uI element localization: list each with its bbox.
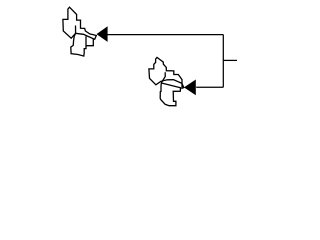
wire right vertical bbox=[222, 35, 224, 88]
node A lower jagged lobe bbox=[71, 26, 94, 57]
arrowhead 2 bbox=[184, 80, 196, 96]
arrowhead 1 bbox=[97, 26, 108, 42]
node A upper jagged lobe bbox=[63, 7, 96, 39]
wire bottom horizontal bbox=[196, 86, 223, 88]
wire top horizontal bbox=[107, 34, 223, 36]
wire stub right bbox=[223, 59, 237, 61]
node B lower jagged lobe bbox=[160, 72, 180, 105]
node B upper jagged lobe bbox=[149, 57, 184, 88]
